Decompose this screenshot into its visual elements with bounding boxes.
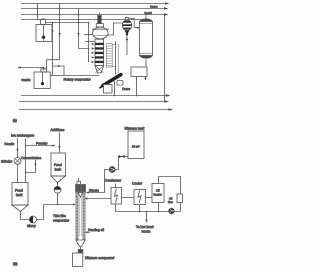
valve on bitumen line — [115, 157, 128, 170]
wire: bitumen feed to TFE — [88, 170, 109, 193]
pump blob in T1 — [42, 36, 45, 39]
wire: slurry discharge — [37, 205, 44, 220]
wire: powder line — [26, 139, 36, 173]
svg-text:(b): (b) — [13, 262, 17, 266]
wire: header from T1 to column — [46, 22, 89, 24]
wire: separator vapor line to condenser — [128, 18, 137, 27]
wire: bulb to separator — [108, 23, 123, 35]
dosing valve — [54, 186, 61, 193]
svg-text:20 m³: 20 m³ — [132, 145, 140, 149]
oil heater — [152, 184, 164, 203]
rotary evaporator bulb — [93, 27, 108, 39]
svg-text:Slurry: Slurry — [27, 224, 36, 228]
svg-text:To low level: To low level — [136, 225, 154, 229]
wire: bottom service line 3 — [19, 109, 169, 111]
svg-text:Steam: Steam — [89, 188, 99, 192]
inner rotor — [78, 193, 82, 198]
dark tray bars — [95, 43, 104, 63]
column bottom cone with cross — [95, 66, 104, 73]
rotary evaporator column body — [95, 39, 104, 65]
svg-text:waste: waste — [142, 229, 151, 233]
grinder — [14, 158, 21, 165]
wire: top service line 4 — [21, 19, 146, 21]
svg-text:Additives: Additives — [51, 128, 65, 132]
waste tank — [18, 68, 44, 71]
wire: receiver outlet — [136, 77, 138, 96]
motor — [76, 185, 86, 193]
condenser K1 — [140, 14, 153, 67]
wire: drop x78 to column top feed — [79, 9, 89, 49]
wire: cooling riser right — [164, 15, 166, 102]
wire: beads line — [17, 139, 19, 158]
wire: top service line 1 — [21, 3, 165, 5]
wire: top service line 2 — [21, 8, 164, 10]
capping box — [117, 81, 123, 86]
feed vessel T1 — [36, 25, 52, 42]
wire: condenser inlet — [115, 184, 117, 188]
svg-text:Oil: Oil — [169, 198, 173, 201]
wire: condensate header — [116, 204, 169, 212]
separator (cyclone) — [122, 18, 132, 56]
drum (b) — [73, 253, 83, 267]
condensate receiver — [131, 67, 147, 77]
svg-text:Steam: Steam — [150, 6, 158, 9]
heating jacket right of column — [106, 44, 112, 68]
svg-text:Thin film: Thin film — [53, 214, 66, 218]
discharge chute (thick) — [103, 75, 121, 86]
wire: transfer line to chute — [53, 75, 100, 77]
wire: bulb inlet stub — [84, 34, 93, 36]
svg-text:(a): (a) — [13, 119, 17, 123]
wire: bottom service line 2 — [19, 101, 165, 103]
bottom cone — [76, 240, 85, 247]
oil filter — [177, 194, 183, 203]
wire: drop x59 — [47, 4, 60, 71]
svg-text:Heating oil: Heating oil — [88, 228, 104, 232]
wire: drum drop — [114, 81, 116, 96]
additives feed — [59, 133, 61, 153]
wire: condenser to cooler — [122, 197, 135, 199]
svg-text:tank: tank — [55, 167, 62, 171]
waste drop — [146, 212, 148, 220]
svg-text:Feed: Feed — [54, 163, 62, 167]
svg-text:waste: waste — [22, 78, 31, 82]
svg-text:Cooler: Cooler — [132, 181, 143, 185]
svg-text:Rotary evaporator: Rotary evaporator — [64, 78, 92, 82]
wire: TFE vapor to condenser — [87, 198, 111, 200]
tray feed arrows — [89, 43, 95, 63]
wire: waste tank riser — [50, 23, 52, 76]
walls — [76, 192, 78, 240]
svg-text:Bitumen compound: Bitumen compound — [85, 256, 114, 260]
svg-text:Concentrates: Concentrates — [21, 156, 41, 160]
bitumen pump — [109, 167, 115, 173]
svg-text:Drum: Drum — [122, 87, 130, 91]
node: junctions on drop — [37, 8, 39, 10]
feed tank B1 (left) — [12, 183, 28, 206]
svg-text:Powder: Powder — [36, 141, 48, 145]
svg-text:Condenser: Condenser — [105, 178, 122, 182]
svg-text:filter: filter — [168, 201, 173, 204]
svg-text:Bitumen tank: Bitumen tank — [125, 126, 145, 130]
svg-text:Ion exchangers: Ion exchangers — [11, 134, 34, 138]
wire: top service line 3 — [21, 14, 164, 16]
thin film evaporator TFE — [76, 178, 86, 253]
dip tube in T1 — [43, 25, 45, 37]
wire: manifold x88 for tray feeds — [88, 23, 90, 63]
feed vessel T1 top fitting — [41, 18, 46, 25]
vapor cap — [78, 178, 80, 181]
wire: bottom service line 1 — [21, 95, 166, 97]
rotary evaporator drive cap stack — [96, 13, 103, 28]
drum (a) — [104, 85, 113, 94]
svg-text:tank: tank — [16, 193, 23, 197]
wire: jacket riser — [115, 41, 117, 75]
svg-text:heater: heater — [154, 193, 162, 197]
oil pump — [169, 208, 175, 214]
wire: mid plumbing — [43, 67, 45, 69]
feed tank B2 (right) — [51, 153, 66, 176]
wire: drop to tank T1 — [37, 4, 39, 20]
slurry pump — [30, 216, 37, 223]
svg-text:evaporator: evaporator — [53, 218, 70, 222]
svg-text:Grinder: Grinder — [1, 160, 13, 164]
svg-text:Beads: Beads — [5, 142, 15, 146]
wire: feed to TFE — [44, 204, 73, 206]
